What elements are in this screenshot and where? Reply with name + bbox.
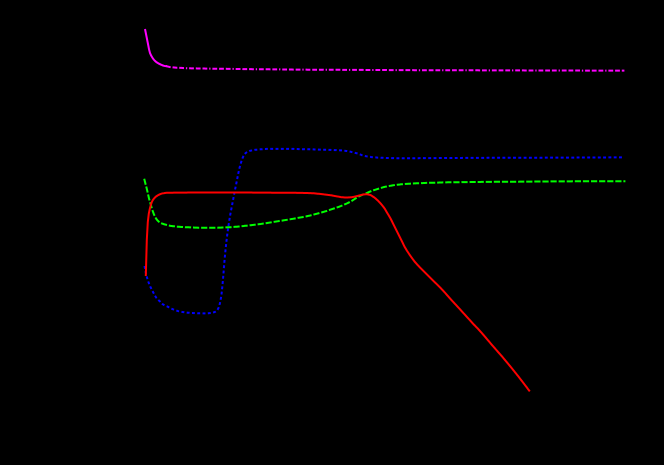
green dashed curve (dip to y~228 then slow rise to plateau y~181) <box>144 179 625 228</box>
magenta curve solid steep head (hyperbolic decay from (145,29)) <box>145 29 167 66</box>
red solid curve (rise to plateau y~193, bump at x~363, then long descent to (530,392)) <box>146 193 530 392</box>
magenta dash-dot curve flat tail (asymptote y~70) <box>166 66 624 71</box>
blue dotted curve (dip to y~313 then step up to plateau y~149, settling y~157.5) <box>145 149 624 314</box>
